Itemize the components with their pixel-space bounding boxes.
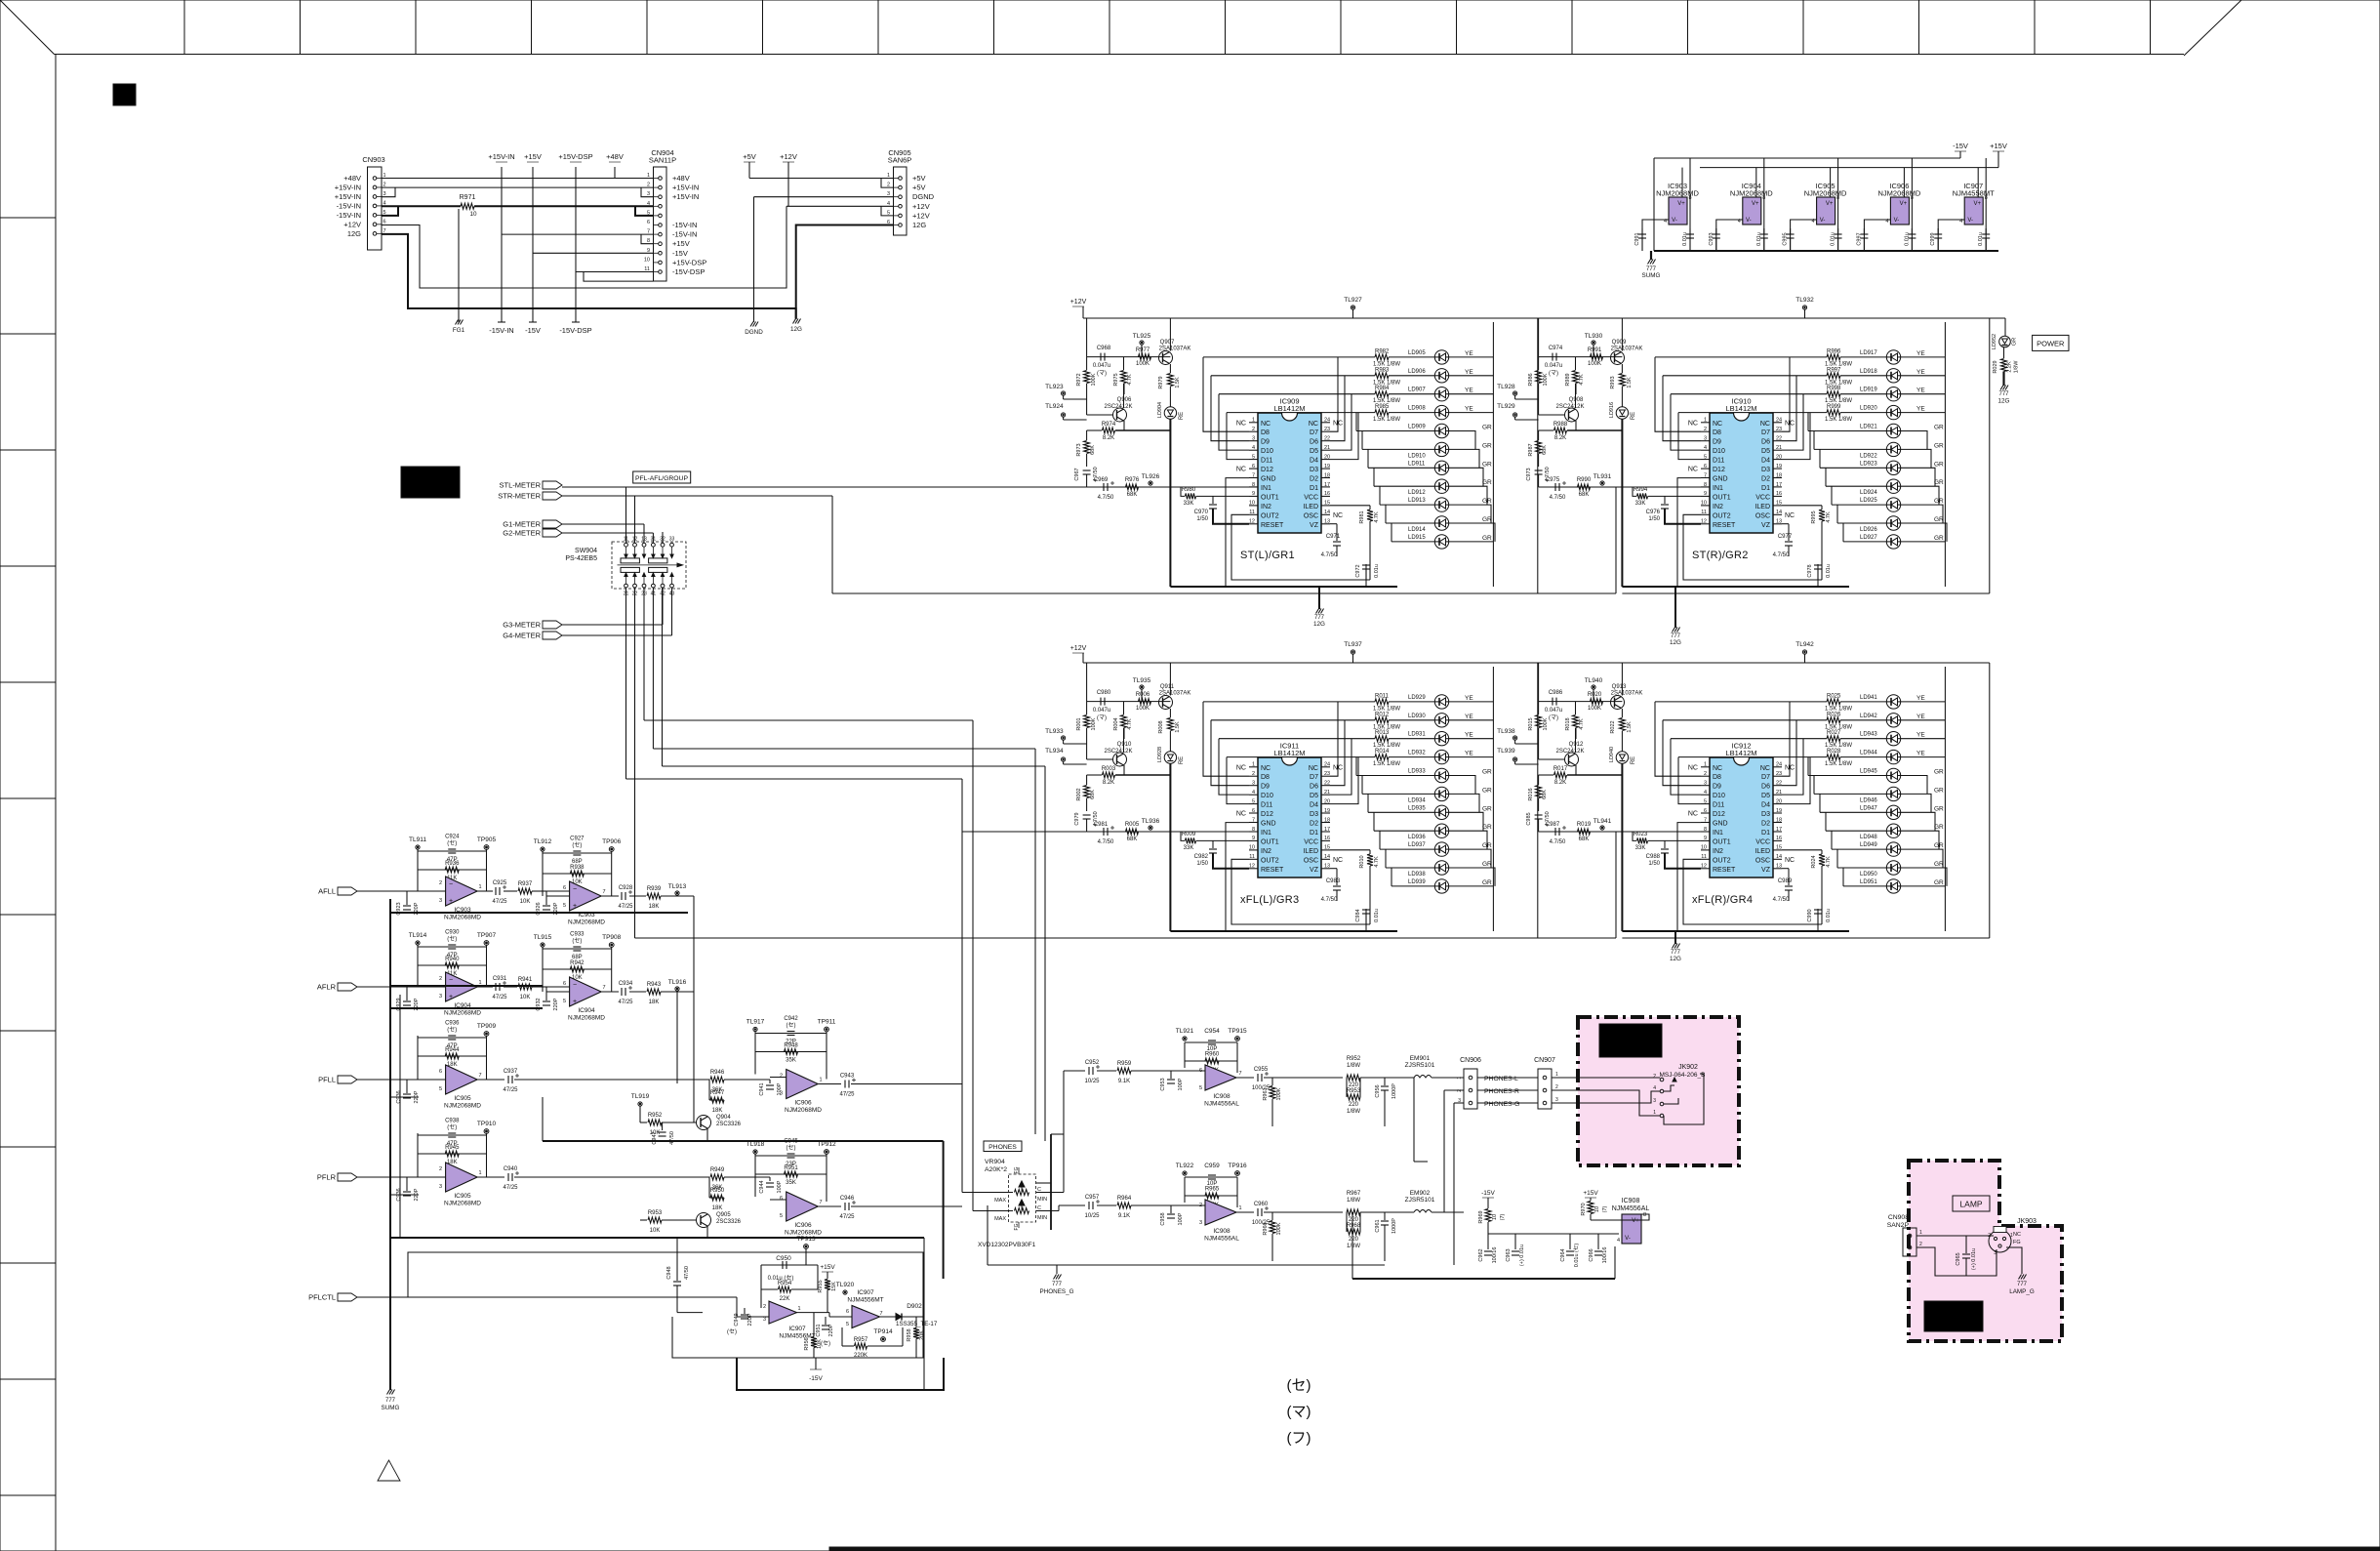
svg-text:Q907: Q907 (1160, 340, 1175, 346)
resistor R956 10K (804, 1313, 823, 1358)
resistor R010 4.7K (1330, 850, 1380, 924)
svg-text:IC907: IC907 (788, 1326, 806, 1332)
test point TL913 (668, 883, 687, 895)
LED LD933 GR (1356, 757, 1492, 795)
svg-text:D12: D12 (1713, 467, 1725, 473)
capacitor C966 100/16 (1589, 1234, 1608, 1263)
svg-text:-15V: -15V (1953, 142, 1968, 150)
revision triangle (378, 1460, 400, 1481)
wire stub pins 32 33 (662, 532, 664, 543)
transistor Q908 2SC2412K (1539, 384, 1585, 430)
svg-text:NC: NC (1785, 857, 1795, 864)
svg-text:RE: RE (1631, 756, 1636, 764)
+12V rail lower blocks (1070, 645, 1990, 663)
switch SW904 PS-42EB5 (565, 537, 686, 597)
svg-text:1/8W: 1/8W (2014, 360, 2020, 374)
svg-text:+: + (573, 999, 577, 1005)
resistor R019 68K (1577, 822, 1592, 842)
svg-text:+12V: +12V (780, 152, 797, 161)
svg-text:68K: 68K (1579, 492, 1590, 498)
svg-text:MSJ-064-206_B: MSJ-064-206_B (1660, 1072, 1706, 1079)
resistor R977 100K (1136, 347, 1151, 367)
svg-text:C975: C975 (1546, 477, 1560, 483)
svg-text:D10: D10 (1261, 448, 1273, 455)
svg-text:10: 10 (1594, 1206, 1600, 1212)
svg-text:NC: NC (1713, 765, 1722, 772)
labels PHONES-L R G (1477, 1076, 1538, 1108)
LED LD929 YE (1389, 695, 1493, 709)
svg-text:+12V: +12V (343, 220, 361, 228)
wire supply bottom bus (1654, 250, 1998, 252)
svg-text:NJM2068MD: NJM2068MD (444, 1010, 481, 1017)
svg-text:V-: V- (1894, 218, 1900, 224)
svg-text:LB1412M: LB1412M (1273, 404, 1305, 413)
svg-text:(セ): (セ) (787, 1022, 796, 1029)
wire data loop D8 IC910 (1655, 357, 1701, 431)
svg-text:1/50: 1/50 (1648, 516, 1660, 522)
svg-text:0.047u: 0.047u (1093, 363, 1110, 369)
svg-text:2: 2 (439, 1166, 442, 1172)
svg-text:18K: 18K (649, 904, 660, 910)
svg-text:NC: NC (1236, 467, 1246, 473)
svg-text:1000P: 1000P (1392, 1218, 1397, 1234)
svg-text:RESET: RESET (1261, 867, 1284, 874)
wire -15V rail top (1654, 142, 1968, 251)
svg-text:Q905: Q905 (716, 1212, 731, 1218)
svg-text:D7: D7 (1761, 774, 1770, 781)
svg-text:D2: D2 (1310, 476, 1318, 483)
svg-text:0.047u: 0.047u (1545, 363, 1562, 369)
svg-text:2SC2412K: 2SC2412K (1104, 749, 1132, 755)
svg-text:C999: C999 (1930, 232, 1936, 245)
LED LD916 RE (1609, 402, 1636, 420)
svg-text:8: 8 (1704, 827, 1707, 833)
wire phones bottom bus (988, 1078, 1428, 1265)
svg-text:LB1412M: LB1412M (1273, 749, 1305, 757)
svg-text:19: 19 (1324, 464, 1330, 469)
svg-text:TL932: TL932 (1795, 297, 1814, 304)
svg-text:+: + (449, 994, 453, 1000)
svg-text:R937: R937 (518, 881, 533, 887)
svg-text:3: 3 (439, 994, 442, 1000)
wire PFLCTL bottom bus (737, 1358, 944, 1390)
svg-text:22: 22 (1324, 436, 1330, 442)
svg-text:R025: R025 (1827, 693, 1841, 699)
svg-text:C956: C956 (1375, 1084, 1381, 1097)
svg-text:9.1K: 9.1K (1118, 1213, 1130, 1219)
svg-text:NC: NC (1688, 811, 1698, 818)
svg-text:YE: YE (1916, 350, 1925, 357)
wire LED cathode bus IC911 (1170, 764, 1397, 932)
LED LD931 YE (1389, 732, 1493, 746)
svg-text:20: 20 (1776, 798, 1782, 804)
svg-text:4.7K: 4.7K (1826, 856, 1832, 868)
svg-text:Q912: Q912 (1569, 742, 1584, 748)
capacitor C926 220P (532, 891, 559, 916)
wire CN903 pin1 +48V to CN904 (382, 167, 653, 179)
svg-text:R961: R961 (1263, 1087, 1269, 1100)
svg-text:2: 2 (1199, 1203, 1202, 1208)
svg-text:NC: NC (1236, 765, 1246, 772)
svg-text:Q908: Q908 (1569, 397, 1584, 403)
svg-text:R022: R022 (1610, 720, 1616, 733)
capacitor C952 10/25 (1064, 1060, 1100, 1084)
svg-text:TL919: TL919 (631, 1093, 650, 1100)
svg-text:11: 11 (1701, 854, 1707, 860)
svg-text:2SC2412K: 2SC2412K (1555, 749, 1584, 755)
svg-text:NJM2068MD: NJM2068MD (568, 1015, 605, 1022)
svg-text:10K: 10K (520, 899, 531, 905)
svg-text:ILED: ILED (1755, 848, 1770, 855)
label -15V phones (1481, 1190, 1495, 1208)
svg-text:220P: 220P (828, 1324, 834, 1336)
svg-text:R020: R020 (1588, 692, 1602, 698)
transistor Q911 2SA1037AK (1159, 684, 1191, 717)
svg-text:(+) 0.01u: (+) 0.01u (1971, 1248, 1977, 1270)
svg-text:0.01u: 0.01u (1826, 564, 1832, 578)
svg-text:GR: GR (1482, 861, 1492, 868)
LED LD944 YE (1840, 750, 1945, 763)
wire G1-METER (562, 524, 644, 543)
svg-text:NJM2068MD: NJM2068MD (1878, 189, 1921, 198)
svg-text:LD920: LD920 (1860, 406, 1877, 412)
svg-text:LD931: LD931 (1408, 732, 1426, 738)
resistor R025 1.5K 1/8W (1655, 693, 1852, 712)
jack JK902 MSJ-064-206_B (1552, 1064, 1705, 1124)
svg-text:PFL-AFL/GROUP: PFL-AFL/GROUP (635, 475, 688, 482)
svg-text:12: 12 (1701, 519, 1707, 525)
svg-text:47/25: 47/25 (492, 995, 507, 1000)
wire right bus inner IC909 (1492, 322, 1494, 587)
svg-text:YE: YE (1465, 350, 1473, 357)
svg-text:NJM2068MD: NJM2068MD (444, 915, 481, 921)
svg-text:3: 3 (1555, 1097, 1558, 1103)
svg-text:33K: 33K (1635, 845, 1646, 851)
svg-text:13: 13 (1776, 519, 1782, 525)
svg-text:YE: YE (1916, 406, 1925, 413)
svg-text:21: 21 (1776, 445, 1782, 451)
svg-text:+15V-IN: +15V-IN (672, 184, 699, 192)
svg-text:100K: 100K (1276, 1222, 1282, 1235)
svg-text:22: 22 (1776, 436, 1782, 442)
resistor R967 220 1/8W (1347, 1191, 1414, 1223)
svg-text:D7: D7 (1310, 774, 1318, 781)
svg-text:220: 220 (1349, 1237, 1359, 1243)
wire input IC910 (1539, 486, 1710, 488)
LED LD940 RE (1609, 747, 1636, 764)
svg-text:17: 17 (1324, 827, 1330, 833)
svg-text:+15V-IN: +15V-IN (335, 192, 361, 201)
svg-text:9.1K: 9.1K (1118, 1079, 1130, 1084)
svg-text:NJM2068MD: NJM2068MD (785, 1107, 822, 1114)
svg-text:GR: GR (1482, 498, 1492, 505)
feedback R944 C936 (418, 1021, 496, 1081)
op-amp IC907 B (796, 1289, 884, 1328)
svg-text:GR: GR (1934, 461, 1944, 468)
svg-text:V+: V+ (1632, 1218, 1639, 1224)
ground 12G IC910 (1670, 587, 1681, 646)
capacitor C984 0.01u (1355, 909, 1380, 931)
svg-text:TL931: TL931 (1593, 473, 1612, 480)
svg-text:ILED: ILED (1303, 504, 1318, 510)
svg-text:4: 4 (1704, 445, 1707, 451)
svg-text:R995: R995 (1811, 510, 1817, 523)
svg-text:DGND: DGND (912, 192, 935, 201)
svg-text:IC906: IC906 (794, 1100, 812, 1107)
svg-text:3: 3 (439, 1184, 442, 1190)
svg-text:10: 10 (1701, 501, 1707, 507)
lamp pink module box (1909, 1161, 2062, 1341)
svg-text:LD916: LD916 (1609, 402, 1615, 418)
capacitor C988 1/50 (1646, 840, 1701, 868)
svg-text:TL913: TL913 (668, 883, 687, 890)
svg-text:R944: R944 (445, 1047, 460, 1053)
svg-text:YE: YE (1916, 714, 1925, 720)
svg-text:R974: R974 (1102, 422, 1116, 428)
svg-text:C968: C968 (1097, 346, 1111, 351)
resistor R979 1.5K 1/8W (1158, 374, 1181, 408)
svg-text:3: 3 (1199, 1220, 1202, 1226)
svg-text:6: 6 (1199, 1068, 1202, 1074)
svg-text:PHONES-R: PHONES-R (1484, 1088, 1519, 1095)
svg-text:47/25: 47/25 (618, 904, 633, 910)
svg-text:GR: GR (1934, 861, 1944, 868)
svg-text:777: 777 (1998, 391, 2009, 397)
ferrite bead EM902 ZJSR5101 (1405, 1190, 1464, 1212)
wire 12G from CN903 pin7 (382, 234, 796, 318)
LED LD911 GR (1368, 449, 1492, 486)
wire CN904 pin2-3 jog (641, 187, 654, 197)
wire GND loop IC912 (1677, 823, 1822, 931)
tag G2-METER (503, 529, 562, 538)
svg-text:D11: D11 (1261, 802, 1272, 809)
svg-text:IN2: IN2 (1713, 848, 1723, 855)
test point TL937 (1344, 641, 1362, 663)
svg-text:LD947: LD947 (1860, 805, 1877, 811)
svg-text:R972: R972 (1076, 373, 1082, 386)
svg-text:7: 7 (602, 985, 605, 991)
op-amp supply IC903 NJM2068MD (1642, 158, 1699, 251)
svg-text:4: 4 (1252, 790, 1255, 796)
svg-text:R970: R970 (1581, 1203, 1587, 1215)
capacitor C993 0.01u (1709, 228, 1720, 251)
svg-text:R018: R018 (1565, 717, 1571, 730)
svg-text:ST(L)/GR1: ST(L)/GR1 (1240, 550, 1295, 561)
svg-text:15: 15 (1776, 845, 1782, 851)
svg-text:D6: D6 (1761, 784, 1770, 791)
svg-text:1: 1 (478, 1170, 481, 1176)
test point TP913 (796, 1236, 816, 1265)
svg-text:LD914: LD914 (1408, 527, 1426, 533)
wire CN905 pin6 12G (796, 225, 894, 309)
resistor R970 10 (7) (1581, 1202, 1649, 1221)
svg-text:TL914: TL914 (409, 932, 427, 939)
svg-text:C960: C960 (1254, 1202, 1269, 1207)
svg-text:16: 16 (1776, 836, 1782, 841)
svg-text:TL928: TL928 (1497, 384, 1515, 390)
resistor R964 9.1K (1097, 1196, 1205, 1219)
svg-text:LD910: LD910 (1408, 453, 1426, 459)
svg-text:C988: C988 (1646, 854, 1661, 860)
svg-text:C930: C930 (445, 930, 460, 936)
svg-text:C944: C944 (759, 1180, 765, 1193)
svg-text:OUT1: OUT1 (1713, 838, 1731, 845)
svg-text:22: 22 (1324, 781, 1330, 787)
svg-text:LD905: LD905 (1408, 350, 1426, 356)
transistor Q906 2SC2412K (1087, 384, 1133, 430)
wire +12V drop IC912 (1539, 663, 1623, 702)
svg-text:YE: YE (1916, 732, 1925, 739)
svg-text:47/25: 47/25 (503, 1185, 518, 1191)
svg-text:TP911: TP911 (818, 1019, 836, 1026)
svg-text:2: 2 (1252, 427, 1255, 432)
svg-text:LD939: LD939 (1408, 879, 1426, 885)
svg-text:R988: R988 (1553, 422, 1568, 428)
svg-text:C982: C982 (1194, 854, 1209, 860)
svg-text:100P: 100P (1178, 1078, 1184, 1090)
resistor R955 15K (818, 1280, 837, 1313)
ground 12G power (1998, 386, 2010, 405)
registration black square (113, 84, 136, 105)
svg-text:YE: YE (1465, 388, 1473, 394)
wire DGND (745, 197, 893, 336)
svg-text:GR: GR (1934, 769, 1944, 776)
svg-text:C961: C961 (1375, 1219, 1381, 1232)
resistor R001 100K (1076, 702, 1097, 759)
wire +12V drop IC910 (1539, 318, 1623, 357)
label -15V op-amp (809, 1358, 823, 1382)
svg-text:R998: R998 (1827, 386, 1841, 391)
svg-text:4: 4 (1617, 1238, 1620, 1244)
svg-text:(セ): (セ) (447, 936, 457, 943)
svg-text:0.01u: 0.01u (1904, 232, 1910, 246)
svg-text:MIN: MIN (1037, 1215, 1047, 1221)
svg-text:R983: R983 (1375, 367, 1390, 373)
svg-text:6: 6 (563, 981, 566, 987)
wire GND loop IC909 (1226, 478, 1370, 587)
svg-text:R990: R990 (1577, 477, 1592, 483)
svg-text:33K: 33K (1184, 845, 1194, 851)
label +15V phones (1583, 1190, 1598, 1201)
svg-text:D6: D6 (1310, 439, 1318, 446)
svg-text:YE: YE (1916, 388, 1925, 394)
power label +15V-IN (488, 152, 514, 162)
wire D6 riser IC911 (1330, 720, 1345, 786)
connector CN906 (1432, 1057, 1481, 1265)
svg-text:GR: GR (1482, 879, 1492, 886)
resistor R023 33K (1633, 832, 1701, 851)
svg-text:+48V: +48V (343, 174, 361, 183)
svg-text:RE: RE (1631, 412, 1636, 420)
potentiometer VR904 A20K*2 (985, 1071, 1083, 1230)
svg-text:NC: NC (1236, 811, 1246, 818)
resistor R006 100K (1136, 692, 1151, 712)
label xFL(R)/GR4 (1692, 894, 1753, 906)
svg-text:R979: R979 (1158, 376, 1164, 388)
capacitor C943 47/25 (818, 1074, 962, 1098)
svg-text:OSC: OSC (1755, 512, 1770, 519)
svg-text:D8: D8 (1713, 429, 1721, 436)
svg-text:R953: R953 (648, 1210, 663, 1216)
svg-text:C981: C981 (1094, 822, 1109, 828)
svg-text:3: 3 (1653, 1098, 1656, 1104)
wire CN904 pin8 +15V (533, 252, 654, 254)
svg-text:3: 3 (1252, 436, 1255, 442)
resistor R973 68K (1076, 430, 1096, 467)
svg-text:12G: 12G (790, 326, 802, 333)
svg-text:2: 2 (647, 183, 650, 188)
LED LD925 GR (1832, 486, 1944, 523)
feedback R960 C954 (1176, 1028, 1247, 1074)
wire D6 riser IC910 (1782, 376, 1796, 441)
svg-text:C991: C991 (1634, 232, 1640, 245)
svg-text:C989: C989 (1778, 878, 1793, 884)
svg-text:R977: R977 (1136, 347, 1150, 353)
svg-text:68K: 68K (1542, 790, 1548, 799)
resistor R953 220 1/8W (1347, 1078, 1361, 1115)
svg-text:+12V: +12V (1070, 645, 1087, 652)
svg-text:R013: R013 (1375, 730, 1390, 736)
LED LD930 YE (1389, 714, 1493, 727)
svg-text:+15V: +15V (1990, 142, 2007, 150)
svg-text:PHONES-G: PHONES-G (1484, 1101, 1519, 1108)
svg-text:4.7K: 4.7K (1826, 511, 1832, 523)
resistor R022 1.5K 1/8W (1610, 718, 1633, 753)
svg-text:YE: YE (1916, 695, 1925, 702)
label +15V op-amp (820, 1264, 835, 1279)
tag PFLR (317, 1173, 446, 1182)
capacitor C968 0.047u (1087, 346, 1171, 377)
resistor R976 68K (1125, 477, 1140, 498)
resistor R014 1.5K 1/8W (1227, 749, 1400, 767)
svg-text:(セ): (セ) (572, 842, 582, 849)
svg-text:R950: R950 (710, 1188, 725, 1194)
tag G1-METER (503, 520, 562, 529)
capacitor C932 220P (532, 987, 559, 1011)
svg-text:LB1412M: LB1412M (1725, 749, 1756, 757)
svg-text:R011: R011 (1375, 693, 1390, 699)
svg-text:3: 3 (1704, 436, 1707, 442)
svg-text:R024: R024 (1811, 855, 1817, 868)
resistor R952 220 1/8W (1347, 1056, 1414, 1088)
svg-text:GR: GR (1934, 498, 1944, 505)
svg-text:GND: GND (1713, 476, 1728, 483)
svg-text:R984: R984 (1375, 386, 1390, 391)
svg-text:C980: C980 (1097, 690, 1111, 696)
wire right bus outer IC912 (1622, 663, 1989, 938)
svg-text:R023: R023 (1634, 832, 1648, 837)
svg-text:TL929: TL929 (1497, 403, 1515, 410)
svg-text:(マ): (マ) (1549, 714, 1558, 721)
svg-text:R957: R957 (854, 1337, 868, 1343)
svg-text:YE: YE (1465, 751, 1473, 757)
svg-text:R015: R015 (1528, 717, 1534, 730)
svg-text:+12V: +12V (1070, 299, 1087, 306)
wire data loop D9 IC911 (1211, 720, 1249, 786)
svg-text:C971: C971 (1326, 534, 1341, 540)
svg-text:18: 18 (1776, 817, 1782, 823)
resistor R029 2.2K 1/8W (1993, 347, 2020, 386)
svg-text:G1-METER: G1-METER (503, 520, 541, 529)
svg-text:4.7K: 4.7K (1127, 718, 1133, 730)
svg-text:R968: R968 (1347, 1223, 1361, 1229)
svg-text:GR: GR (1482, 479, 1492, 486)
svg-text:NC: NC (1688, 467, 1698, 473)
svg-text:LD915: LD915 (1408, 535, 1426, 541)
LED LD905 YE (1389, 350, 1493, 364)
svg-text:68K: 68K (1127, 837, 1138, 842)
svg-text:D7: D7 (1761, 429, 1770, 436)
